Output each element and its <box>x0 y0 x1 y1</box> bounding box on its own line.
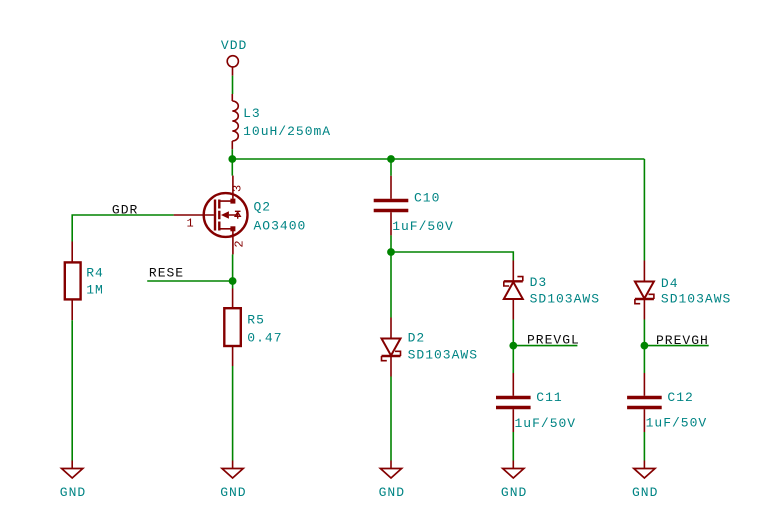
ground under R4 <box>60 461 86 501</box>
svg-text:D2: D2 <box>408 331 426 346</box>
wire rail to D4 <box>643 159 645 261</box>
junction PREVGH <box>641 342 649 350</box>
svg-text:SD103AWS: SD103AWS <box>530 292 600 307</box>
svg-text:R4: R4 <box>86 266 104 281</box>
wire PREVGL <box>513 345 577 347</box>
svg-text:GND: GND <box>60 485 86 500</box>
svg-text:VDD: VDD <box>221 38 247 53</box>
junction below C10 <box>387 248 395 256</box>
wire RESE <box>147 280 232 282</box>
wire R4 to GND <box>71 320 73 460</box>
wire VDD to L3 <box>232 76 234 94</box>
svg-text:L3: L3 <box>243 106 261 121</box>
wire rail to C10 <box>390 159 392 176</box>
svg-text:10uH/250mA: 10uH/250mA <box>243 124 331 139</box>
diode D3 SD103AWS <box>504 261 600 320</box>
wire D4 to C12 <box>643 320 645 374</box>
svg-text:RESE: RESE <box>149 266 184 281</box>
svg-text:GND: GND <box>220 485 246 500</box>
capacitor C11 <box>496 373 576 432</box>
svg-text:1uF/50V: 1uF/50V <box>392 219 454 234</box>
svg-text:Q2: Q2 <box>254 200 272 215</box>
resistor R4 <box>65 242 104 321</box>
wire to D3 branch <box>391 252 513 261</box>
resistor R5 <box>224 289 282 367</box>
ground under C11 <box>501 461 527 501</box>
junction PREVGL <box>509 342 517 350</box>
svg-text:D4: D4 <box>661 276 679 291</box>
inductor L3 pin top <box>231 94 233 101</box>
capacitor C12 <box>627 373 707 432</box>
capacitor C10 <box>374 176 454 236</box>
svg-text:1uF/50V: 1uF/50V <box>646 416 708 431</box>
wire C10 to D2 <box>390 235 392 317</box>
svg-text:GND: GND <box>379 485 405 500</box>
svg-text:SD103AWS: SD103AWS <box>408 348 478 363</box>
diode D2 SD103AWS <box>382 318 479 377</box>
ground under D2 <box>379 461 405 501</box>
svg-text:3: 3 <box>231 185 245 192</box>
diode D4 SD103AWS <box>635 261 731 320</box>
svg-text:0.47: 0.47 <box>247 331 282 346</box>
svg-text:D3: D3 <box>530 275 548 290</box>
junction below L3 <box>228 155 236 163</box>
svg-text:SD103AWS: SD103AWS <box>661 292 731 307</box>
wire L3 to rail <box>231 149 233 175</box>
ground under C12 <box>632 461 658 501</box>
svg-text:C12: C12 <box>667 390 693 405</box>
svg-text:2: 2 <box>233 240 247 247</box>
svg-text:R5: R5 <box>247 313 265 328</box>
wire D2 to GND <box>390 377 392 461</box>
ground under R5 <box>220 461 246 501</box>
wire PREVGH <box>644 345 708 347</box>
wire R5 to GND <box>232 366 234 461</box>
svg-text:C10: C10 <box>414 191 440 206</box>
svg-text:AO3400: AO3400 <box>254 219 307 234</box>
wire top rail <box>232 158 644 160</box>
wire C12 to GND <box>643 432 645 461</box>
svg-text:1: 1 <box>187 217 194 231</box>
svg-text:GND: GND <box>632 485 658 500</box>
transistor Q2 AO3400 <box>174 176 307 255</box>
wire C11 to GND <box>512 432 514 461</box>
power symbol VDD <box>221 38 247 76</box>
svg-text:1uF/50V: 1uF/50V <box>515 416 577 431</box>
wire Q2 source to R5 <box>232 254 234 288</box>
junction above C10 <box>387 155 395 163</box>
svg-text:C11: C11 <box>536 390 562 405</box>
inductor L3 <box>232 101 331 149</box>
junction RESE <box>229 277 237 285</box>
wire GDR <box>72 215 173 242</box>
wire D3 to C11 <box>512 320 514 374</box>
svg-text:GND: GND <box>501 485 527 500</box>
svg-text:1M: 1M <box>86 283 104 298</box>
